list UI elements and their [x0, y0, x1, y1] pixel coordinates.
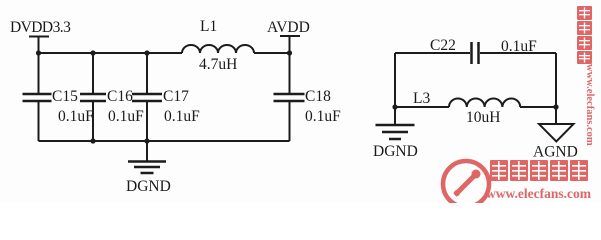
- ground DGND left: [128, 141, 166, 173]
- power DVDD3.3: [29, 37, 49, 54]
- junction node bottom C17: [144, 138, 149, 143]
- wire bottom left segment: [395, 106, 449, 108]
- svg-text:C17: C17: [163, 88, 189, 105]
- svg-text:0.1uF: 0.1uF: [164, 108, 200, 125]
- svg-text:www.elecfans.com: www.elecfans.com: [486, 186, 592, 201]
- junction node top C17: [144, 50, 149, 55]
- junction node top C16: [90, 50, 95, 55]
- svg-text:AGND: AGND: [533, 144, 578, 161]
- svg-text:L3: L3: [413, 90, 430, 107]
- svg-text:C15: C15: [52, 88, 78, 105]
- capacitor C17: [132, 53, 162, 141]
- svg-text:DGND: DGND: [373, 143, 418, 160]
- junction node right: [553, 104, 558, 109]
- svg-text:C16: C16: [107, 88, 133, 105]
- svg-text:L1: L1: [200, 18, 217, 35]
- svg-text:0.1uF: 0.1uF: [58, 108, 94, 125]
- svg-text:10uH: 10uH: [466, 109, 500, 126]
- capacitor C15: [23, 53, 52, 141]
- wire top rail left: [39, 52, 183, 54]
- capacitor C18: [274, 53, 305, 141]
- svg-text:C22: C22: [430, 37, 456, 54]
- svg-text:C18: C18: [305, 88, 331, 105]
- power AVDD: [280, 36, 300, 53]
- wire bottom rail: [39, 140, 290, 142]
- svg-text:www.elecfans.com: www.elecfans.com: [584, 64, 595, 146]
- wire left vertical: [394, 53, 396, 107]
- svg-text:AVDD: AVDD: [267, 19, 310, 36]
- inductor L3: [449, 99, 520, 108]
- wire top rail right: [254, 52, 290, 54]
- capacitor C16: [80, 53, 106, 141]
- ground DGND right: [376, 107, 415, 139]
- junction node left: [392, 104, 397, 109]
- inductor L1: [182, 45, 254, 53]
- svg-text:0.1uF: 0.1uF: [305, 108, 341, 125]
- junction node top C15: [36, 50, 41, 55]
- wire right vertical: [555, 53, 557, 124]
- junction node bottom C16: [90, 138, 95, 143]
- svg-text:4.7uH: 4.7uH: [199, 56, 237, 73]
- svg-text:DVDD3.3: DVDD3.3: [10, 19, 71, 36]
- wire top rail right-circuit right part: [480, 52, 556, 54]
- ground AGND: [539, 124, 574, 142]
- wire bottom right segment: [520, 106, 556, 108]
- capacitor C22: [472, 42, 479, 64]
- svg-text:DGND: DGND: [126, 178, 171, 195]
- wire top rail right-circuit left part: [395, 52, 470, 54]
- junction node top AVDD: [287, 50, 292, 55]
- svg-text:0.1uF: 0.1uF: [108, 108, 144, 125]
